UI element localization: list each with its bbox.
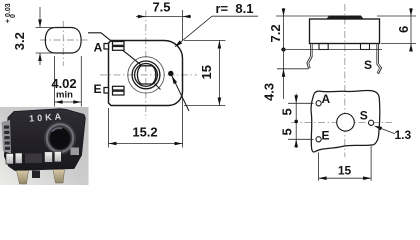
svg-text:S: S bbox=[360, 109, 368, 123]
svg-text:A: A bbox=[322, 92, 331, 106]
svg-text:r= 8.1: r= 8.1 bbox=[216, 1, 254, 16]
svg-text:7.5: 7.5 bbox=[152, 0, 170, 15]
svg-text:15: 15 bbox=[199, 65, 214, 79]
svg-text:4.3: 4.3 bbox=[262, 83, 277, 101]
svg-text:15.2: 15.2 bbox=[132, 125, 157, 140]
svg-text:E: E bbox=[322, 129, 330, 143]
svg-text:5: 5 bbox=[280, 108, 295, 115]
svg-text:3.2: 3.2 bbox=[12, 32, 27, 50]
svg-text:1.3: 1.3 bbox=[395, 128, 412, 142]
svg-text:A: A bbox=[94, 41, 103, 55]
svg-text:6: 6 bbox=[396, 26, 411, 33]
svg-text:0: 0 bbox=[10, 14, 17, 18]
svg-text:S: S bbox=[364, 58, 372, 72]
svg-text:+ 0.03: + 0.03 bbox=[5, 3, 12, 23]
svg-text:min: min bbox=[56, 90, 73, 101]
svg-text:5: 5 bbox=[280, 128, 295, 135]
svg-text:15: 15 bbox=[338, 164, 352, 178]
svg-text:7.2: 7.2 bbox=[268, 24, 283, 42]
svg-text:E: E bbox=[93, 82, 101, 96]
